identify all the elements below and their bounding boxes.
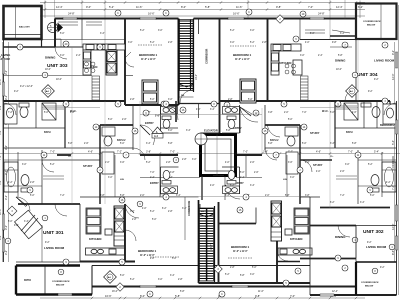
unit301 washer dryer — [114, 206, 125, 246]
svg-text:3'-4": 3'-4" — [330, 143, 335, 145]
deck TL right wall stub — [41, 39, 43, 47]
dims center y173 — [150, 172, 259, 174]
svg-text:3'-4": 3'-4" — [186, 130, 191, 132]
svg-text:10'-0": 10'-0" — [336, 69, 342, 71]
outer wall left top horizontal — [4, 46, 56, 48]
svg-text:3'-4": 3'-4" — [360, 202, 365, 204]
range burners 304 — [285, 64, 296, 74]
svg-text:BEDROOM 2: BEDROOM 2 — [380, 124, 395, 127]
bath302 entry fixtures — [223, 170, 240, 193]
svg-text:5'-0": 5'-0" — [150, 99, 155, 101]
tag dining303 — [42, 72, 48, 78]
svg-text:5'-0": 5'-0" — [370, 195, 375, 197]
bath303 entry fixtures — [161, 107, 178, 129]
svg-text:5'-2": 5'-2" — [146, 162, 151, 164]
stair shaft top west wall — [178, 19, 180, 106]
tag midleft b — [93, 124, 99, 130]
svg-text:3'-0": 3'-0" — [192, 159, 197, 161]
door swing 301 living — [55, 204, 67, 216]
midright partition y128 — [335, 127, 397, 129]
svg-text:4'-2": 4'-2" — [8, 182, 13, 184]
window right D — [395, 236, 397, 250]
reference line x262 — [261, 108, 263, 155]
window tag 303b — [115, 10, 121, 16]
svg-text:C: C — [221, 293, 223, 296]
detail marker right-top — [346, 85, 359, 98]
tag bottom a — [147, 291, 153, 297]
dim line y196 — [100, 196, 310, 198]
partition x265 — [264, 105, 266, 150]
detail marker bottom-left — [104, 271, 117, 284]
unit301 kitchen south wall — [80, 261, 135, 263]
outer wall right edge — [396, 101, 398, 295]
tag bottom b — [219, 291, 225, 297]
svg-text:3'-0": 3'-0" — [158, 279, 163, 281]
svg-text:2'-4": 2'-4" — [76, 55, 81, 57]
svg-text:8'-0": 8'-0" — [140, 294, 145, 298]
svg-text:PATIO: PATIO — [24, 279, 31, 282]
svg-text:6'-2": 6'-2" — [162, 208, 167, 210]
svg-text:3'-6": 3'-6" — [120, 162, 125, 164]
partition x358 right — [357, 150, 359, 204]
dims midright y113 — [268, 112, 357, 114]
tag midleft a — [132, 128, 138, 134]
svg-text:11'-6" x 11'-0": 11'-6" x 11'-0" — [233, 251, 248, 253]
svg-text:2'-4": 2'-4" — [240, 177, 245, 179]
window top C — [228, 17, 244, 19]
svg-text:3'-0": 3'-0" — [168, 99, 173, 101]
svg-text:3'-4": 3'-4" — [250, 185, 255, 187]
unit302 west wall — [218, 202, 220, 283]
tag lobby up — [173, 157, 179, 163]
tag living302 — [352, 237, 358, 243]
svg-text:2'-8": 2'-8" — [262, 42, 267, 44]
unit302 south wall y258 — [300, 258, 356, 260]
outer wall jog left — [54, 19, 56, 48]
ticks bottom extra — [119, 297, 331, 299]
svg-text:5'-0": 5'-0" — [8, 221, 13, 223]
door leaf bedroom301 — [125, 204, 134, 213]
svg-text:5'-2": 5'-2" — [130, 279, 135, 281]
svg-text:LIVING ROOM: LIVING ROOM — [374, 59, 395, 63]
svg-text:DN: DN — [201, 211, 205, 213]
tag mid b — [273, 152, 279, 158]
lobby partition x246 right — [245, 155, 247, 177]
ticks top 1 — [44, 1, 357, 3]
dimension lines left — [3, 42, 9, 262]
outer wall bottom center — [199, 282, 311, 284]
svg-text:9'-2": 9'-2" — [374, 79, 379, 81]
lobby line y177 — [140, 177, 200, 179]
dims midleft y113 — [8, 112, 177, 114]
pantry shelves left — [92, 76, 100, 101]
svg-text:BEDROOM 1: BEDROOM 1 — [138, 249, 157, 253]
svg-text:ENTRY: ENTRY — [150, 181, 159, 185]
stair shaft bottom west wall — [198, 200, 200, 283]
svg-text:7'-0": 7'-0" — [290, 294, 295, 298]
midright partition x335 — [334, 101, 336, 148]
svg-text:3'-4": 3'-4" — [340, 33, 345, 35]
kitchen303 counter row — [83, 44, 125, 50]
dims dining303 extra — [56, 79, 62, 81]
svg-text:2'-8": 2'-8" — [150, 258, 155, 260]
svg-text:5'-2": 5'-2" — [50, 164, 55, 166]
svg-text:7'-0": 7'-0" — [348, 151, 353, 154]
tag deck BR — [372, 268, 378, 274]
svg-text:DINING: DINING — [335, 59, 346, 63]
dims y196 right — [225, 195, 375, 197]
deck BL top partition — [16, 261, 80, 263]
covered deck top-left walls — [4, 6, 42, 39]
corridor east stub top — [198, 19, 200, 35]
svg-text:4'-2": 4'-2" — [386, 182, 391, 184]
kitchen301 west partition — [79, 204, 81, 262]
svg-text:2'-8": 2'-8" — [228, 99, 233, 101]
partition x287 lobby — [286, 155, 288, 197]
unit302 north wall thin — [300, 196, 320, 198]
covered deck top-right walls — [356, 4, 397, 40]
svg-text:9'-8": 9'-8" — [255, 294, 260, 298]
line through shaft — [216, 135, 218, 177]
svg-text:2'-0": 2'-0" — [140, 195, 145, 197]
unit303 closet partition x82 — [81, 19, 83, 40]
tag center c — [211, 101, 217, 107]
svg-text:11'-6": 11'-6" — [258, 291, 264, 293]
study302 north wall thick — [300, 159, 332, 161]
svg-text:9'-0": 9'-0" — [86, 5, 91, 9]
svg-text:2'-8": 2'-8" — [166, 162, 171, 164]
kitchen304 counters — [271, 44, 302, 75]
ticks top 2 — [44, 8, 331, 10]
svg-text:12'-0": 12'-0" — [391, 223, 395, 230]
central partition x240 — [239, 108, 241, 133]
tag dining304 — [352, 72, 358, 78]
dims mid y163 — [105, 162, 310, 164]
closet rods wic303 — [43, 106, 64, 109]
link line x125-133 — [125, 75, 133, 77]
dims midleft y165 — [22, 164, 55, 166]
detail marker left-top — [42, 85, 55, 98]
dims dining304 — [336, 69, 342, 71]
stair bottom treads — [200, 208, 214, 281]
svg-text:UNIT 302: UNIT 302 — [363, 229, 384, 235]
partition x382 lower — [381, 152, 383, 197]
dims bedroom303 top — [128, 42, 173, 44]
svg-text:9'-2": 9'-2" — [367, 242, 372, 244]
partition y186 right — [358, 185, 397, 187]
svg-text:9'-2": 9'-2" — [391, 50, 395, 55]
svg-text:5'-0": 5'-0" — [44, 112, 49, 114]
door tag 303a — [63, 41, 69, 47]
svg-text:5'-0": 5'-0" — [330, 112, 335, 114]
svg-text:3'-0": 3'-0" — [22, 164, 27, 166]
svg-text:6'-2": 6'-2" — [0, 105, 2, 110]
bath2 north wall — [100, 124, 133, 126]
dims hall303 — [60, 33, 105, 35]
tag mid e — [97, 167, 103, 173]
svg-text:5'-0": 5'-0" — [152, 219, 157, 221]
svg-text:9'-2": 9'-2" — [45, 242, 50, 244]
partition y170 right — [382, 169, 397, 171]
door swing 303 living — [55, 47, 67, 59]
dim texts mid string — [50, 151, 379, 154]
svg-text:BATH 2: BATH 2 — [117, 139, 126, 142]
svg-text:5'-0": 5'-0" — [288, 119, 293, 121]
dims living302 — [367, 242, 372, 244]
tub 301 — [4, 162, 18, 192]
svg-text:BELOW: BELOW — [365, 286, 374, 288]
svg-text:7'-0": 7'-0" — [243, 151, 248, 154]
svg-text:5'-4": 5'-4" — [374, 151, 379, 154]
svg-text:STUDY: STUDY — [83, 164, 93, 168]
svg-text:9'-8": 9'-8" — [276, 5, 281, 9]
window bottom B — [232, 285, 248, 287]
svg-text:9'-2": 9'-2" — [380, 267, 385, 269]
partition x18 lower — [17, 152, 19, 197]
svg-text:14'-2": 14'-2" — [211, 244, 213, 250]
svg-text:5'-4": 5'-4" — [0, 180, 2, 185]
dims bottom inner — [120, 275, 245, 277]
window tag 303c — [163, 10, 169, 16]
svg-text:5'-8": 5'-8" — [285, 195, 290, 197]
svg-text:10'-0": 10'-0" — [45, 69, 51, 71]
section marker A5 — [48, 23, 64, 48]
window bottom C — [320, 294, 334, 296]
door swing 304 living — [345, 89, 357, 101]
central partition y128 — [160, 127, 178, 129]
door swing entry302 — [225, 185, 240, 199]
svg-text:11'-6" x 11'-0": 11'-6" x 11'-0" — [140, 255, 155, 257]
svg-text:5'-2": 5'-2" — [140, 30, 145, 32]
svg-text:5'-0": 5'-0" — [30, 195, 35, 197]
ticks mid string — [41, 152, 383, 154]
bottom band wall y265 — [92, 265, 310, 267]
tag extra8 — [382, 98, 388, 104]
svg-text:5'-0": 5'-0" — [172, 258, 177, 260]
svg-text:KITCHEN: KITCHEN — [279, 61, 291, 65]
svg-text:4'-6": 4'-6" — [316, 151, 321, 154]
svg-text:7'-0": 7'-0" — [150, 172, 155, 174]
deck TL inner edge — [4, 34, 42, 36]
unit302 bedroom east wall — [276, 224, 278, 284]
bath 302 upper fixtures — [344, 103, 396, 124]
svg-text:5'-8": 5'-8" — [120, 195, 125, 197]
dims midleft y144 — [68, 143, 173, 145]
svg-text:2'-8": 2'-8" — [130, 99, 135, 101]
tag bottom d — [342, 265, 348, 271]
tag midright c — [367, 187, 373, 193]
svg-text:KITCHEN: KITCHEN — [89, 237, 101, 241]
svg-text:6'-0": 6'-0" — [168, 130, 173, 132]
central wall x176 — [175, 101, 177, 122]
ticks bottom — [91, 297, 357, 299]
window top B — [140, 17, 156, 19]
dim text bottom row — [105, 294, 337, 298]
bath2 right fixtures — [285, 127, 298, 174]
diamond top right — [276, 15, 284, 23]
dimension lines top — [40, 1, 365, 19]
midright wall x300 — [299, 125, 301, 204]
dims midright y165 — [345, 164, 373, 166]
svg-text:5'-8": 5'-8" — [240, 275, 245, 277]
kitchen302 island — [278, 208, 312, 255]
dims bedroom301 top — [130, 211, 173, 213]
unit301 north wall thick — [18, 203, 80, 205]
svg-text:12'-4": 12'-4" — [56, 5, 63, 9]
unit304 bedroom west wall — [219, 19, 221, 134]
kitchen302 south wall — [277, 261, 300, 263]
closet doors hall 303 — [58, 22, 102, 25]
svg-text:3'-0": 3'-0" — [230, 42, 235, 44]
svg-text:2'-0": 2'-0" — [284, 112, 289, 114]
svg-text:5'-0": 5'-0" — [108, 119, 113, 121]
dims living303 — [20, 86, 33, 88]
door swing 303 bedroom — [125, 58, 134, 67]
svg-text:2'-4": 2'-4" — [150, 177, 155, 179]
door leaves entries — [16, 107, 251, 206]
unit301 north wall thin — [80, 196, 125, 198]
outer wall top west section — [55, 18, 179, 20]
svg-text:3'-8": 3'-8" — [170, 172, 175, 174]
svg-text:CL.: CL. — [330, 156, 334, 158]
door leaf entry302 — [225, 185, 235, 192]
range burners 303 — [85, 62, 96, 73]
dims living302 extra — [380, 267, 385, 269]
window bottom A — [140, 285, 156, 287]
unit302 north wall thick right — [320, 207, 390, 209]
dimension line bottom — [40, 297, 365, 299]
svg-text:5'-8": 5'-8" — [338, 55, 343, 57]
living divider 302 — [355, 226, 357, 259]
dims bath2 left — [108, 119, 127, 121]
svg-text:7'-0": 7'-0" — [302, 112, 307, 114]
svg-text:9'-2" x 12'-6": 9'-2" x 12'-6" — [20, 86, 33, 88]
bath302 entry east wall — [239, 167, 241, 194]
unit302 living north wall — [310, 225, 356, 227]
tag midright b — [301, 124, 307, 130]
svg-text:4'-0": 4'-0" — [210, 185, 215, 187]
tub 302 — [382, 162, 396, 192]
svg-text:CORRIDOR: CORRIDOR — [391, 156, 395, 170]
svg-text:5'-4": 5'-4" — [0, 130, 2, 135]
svg-text:2'-4": 2'-4" — [318, 55, 323, 57]
dims mid y178 — [108, 177, 295, 179]
svg-text:BATH 2: BATH 2 — [270, 139, 279, 142]
svg-text:5'-8": 5'-8" — [205, 5, 210, 9]
partition x356 lower — [355, 226, 357, 263]
svg-text:4'-0": 4'-0" — [142, 208, 147, 210]
door swing study301 closet — [42, 160, 54, 172]
svg-text:5'-0": 5'-0" — [248, 99, 253, 101]
dims living301 — [45, 242, 50, 244]
partition x310 right — [309, 197, 311, 295]
svg-text:3'-0": 3'-0" — [108, 177, 113, 179]
svg-text:11'-6" x 11'-0": 11'-6" x 11'-0" — [235, 59, 250, 61]
grid line x330 — [329, 0, 331, 39]
unit302 partition x256 — [255, 208, 257, 224]
bath303 entry west wall — [160, 105, 162, 133]
elevator shaft — [201, 135, 236, 176]
svg-text:4'-0": 4'-0" — [316, 171, 321, 173]
dim line y107 right — [300, 107, 358, 109]
svg-text:3'-0": 3'-0" — [250, 274, 255, 276]
door swing entry303 up — [165, 107, 178, 120]
tag center d — [224, 102, 230, 108]
dims midleft y183 — [8, 182, 35, 184]
window top D — [310, 17, 324, 19]
svg-text:C: C — [149, 293, 151, 296]
svg-text:2'-8": 2'-8" — [168, 42, 173, 44]
section marker center A-4 — [152, 127, 163, 138]
outer wall bottom main — [92, 285, 356, 287]
svg-text:16'-6": 16'-6" — [233, 12, 240, 16]
svg-text:16'-6": 16'-6" — [148, 12, 155, 16]
door swing bedroom301 upper — [125, 204, 139, 218]
bath304 partition x364 — [363, 101, 365, 128]
svg-text:ENTRY: ENTRY — [145, 121, 154, 125]
svg-text:11'-6": 11'-6" — [236, 5, 242, 9]
svg-text:5'-2": 5'-2" — [368, 164, 373, 166]
dim line y114 — [140, 114, 262, 116]
dims kitchen303 row — [60, 55, 81, 57]
svg-text:12'-4": 12'-4" — [336, 5, 343, 9]
dims midright y183 — [386, 182, 391, 184]
outer wall left lower — [3, 204, 5, 262]
unit304 bedroom east wall — [267, 19, 269, 101]
svg-text:3'-0": 3'-0" — [158, 30, 163, 32]
svg-text:3'-8": 3'-8" — [268, 112, 273, 114]
tag mid c — [41, 152, 47, 158]
window left A — [2, 58, 4, 74]
door leaf entry303 — [140, 125, 149, 134]
toilet 302 — [370, 175, 379, 193]
door leaf 303 bedroom — [125, 52, 131, 58]
svg-text:LIVING ROOM: LIVING ROOM — [366, 245, 387, 249]
svg-text:BATH: BATH — [346, 131, 353, 134]
svg-text:3'-2": 3'-2" — [4, 195, 8, 200]
svg-text:9'-2": 9'-2" — [368, 91, 373, 93]
svg-text:UNIT 304: UNIT 304 — [357, 72, 378, 78]
dim text right column — [391, 50, 395, 255]
detail diamond left lower — [7, 206, 17, 216]
svg-text:2'-6": 2'-6" — [250, 162, 255, 164]
tag extra13 — [163, 194, 169, 200]
svg-text:3'-0": 3'-0" — [60, 55, 65, 57]
diamond bottom left — [116, 283, 124, 291]
svg-text:8'-6": 8'-6" — [0, 235, 2, 240]
dims bottom inner row2 — [112, 291, 338, 293]
svg-text:3'-4": 3'-4" — [210, 109, 215, 111]
dims lobby bottom row — [142, 208, 187, 210]
svg-text:2'-0": 2'-0" — [305, 162, 310, 164]
dims bedrooms top — [140, 30, 255, 32]
corridor line below elevator — [224, 176, 226, 200]
tag center a — [161, 101, 167, 107]
svg-text:A-4: A-4 — [154, 135, 159, 138]
central dimension line — [0, 153, 400, 155]
dims midright y144 — [268, 143, 357, 145]
svg-text:5'-0": 5'-0" — [240, 172, 245, 174]
dim text top row1 — [56, 5, 363, 9]
dims above wall right — [330, 202, 365, 204]
tag extra2 — [115, 101, 121, 107]
svg-text:3'-4": 3'-4" — [100, 33, 105, 35]
svg-text:5'-8": 5'-8" — [352, 143, 357, 145]
tag lobby low — [137, 201, 143, 207]
tag extra11 — [283, 280, 289, 286]
reference line x72 — [71, 47, 73, 204]
corridor bottom west line — [184, 197, 186, 240]
